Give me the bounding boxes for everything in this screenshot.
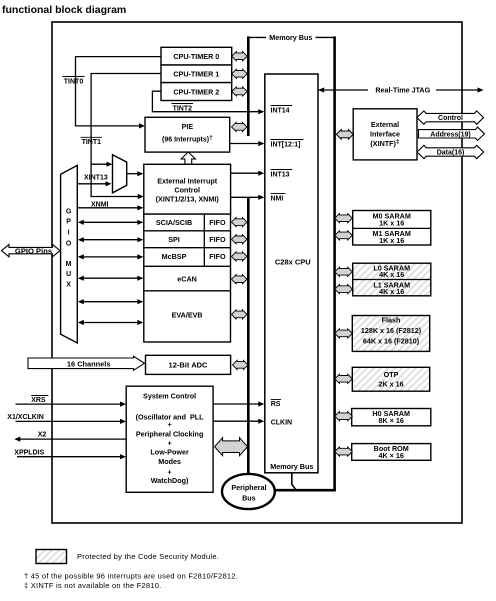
wire CLKIN system control to CPU (213, 419, 264, 424)
bus arrow SCIA (232, 218, 248, 227)
svg-text:INT13: INT13 (271, 171, 290, 178)
svg-text:8K × 16: 8K × 16 (379, 416, 404, 425)
legend hatched swatch (36, 550, 219, 564)
wire XNMI row into ext int control (77, 205, 143, 210)
bus arrow cpu-timer 0 (232, 52, 248, 61)
GPIO mux polygon (61, 165, 78, 343)
wire RS system control to CPU (213, 401, 264, 406)
svg-text:Memory Bus: Memory Bus (269, 33, 312, 42)
svg-text:SCIA/SCIB: SCIA/SCIB (156, 218, 192, 227)
svg-text:U: U (66, 271, 71, 278)
label XINT13 (84, 175, 108, 182)
arrow 16 Channels (28, 356, 145, 370)
wire NMI ext-int-control to CPU (231, 195, 265, 200)
bus arrow System Control (215, 438, 248, 456)
svg-text:XINT13: XINT13 (84, 175, 108, 182)
svg-text:CPU-TIMER 0: CPU-TIMER 0 (173, 52, 219, 61)
svg-text:+: + (167, 420, 171, 429)
svg-text:XPPLDIS: XPPLDIS (14, 449, 44, 456)
outer border frame (52, 22, 462, 523)
block CPU-TIMER 1 (161, 65, 232, 83)
svg-text:M: M (66, 261, 72, 268)
label X1/XCLKIN (7, 414, 44, 421)
bus arrow M1 (335, 231, 353, 240)
svg-text:Interface: Interface (370, 129, 400, 138)
svg-text:System Control: System Control (143, 391, 196, 400)
wire gpio-ecan bidirectional (78, 276, 144, 281)
bus arrow OTP (335, 374, 353, 383)
peripheral bus ellipse (222, 474, 275, 509)
svg-text:INT14: INT14 (271, 108, 290, 115)
svg-text:External: External (371, 120, 399, 129)
svg-text:Bus: Bus (242, 494, 256, 503)
bus arrow EVA/EVB (232, 310, 248, 319)
block M0/M1 SARAM (353, 211, 431, 246)
svg-text:FIFO: FIFO (209, 235, 226, 244)
wire INT[12:1] from PIE to CPU (230, 141, 265, 146)
svg-text:PIE: PIE (182, 122, 194, 131)
bus arrow cpu-timer 1 (232, 69, 248, 78)
block System Control (126, 386, 213, 492)
bus arrow L0 (335, 267, 353, 276)
svg-text:P: P (66, 219, 71, 226)
bus arrow XINTF (336, 130, 353, 140)
svg-text:16 Channels: 16 Channels (67, 360, 111, 369)
label XPPLDIS (14, 449, 44, 456)
svg-text:CPU-TIMER 1: CPU-TIMER 1 (173, 70, 219, 79)
block CPU-TIMER 0 (161, 47, 232, 65)
bus arrow McBSP (232, 252, 248, 261)
bus arrow cpu-timer 2 (232, 87, 248, 96)
svg-text:TINT2: TINT2 (173, 106, 193, 113)
wire X1/XCLKIN (16, 419, 127, 424)
svg-text:64K x 16 (F2810): 64K x 16 (F2810) (363, 336, 420, 345)
svg-text:Control: Control (438, 115, 463, 122)
svg-text:McBSP: McBSP (162, 252, 187, 261)
svg-text:EVA/EVB: EVA/EVB (172, 310, 203, 319)
svg-text:functional block diagram: functional block diagram (2, 4, 126, 16)
label TINT2 (172, 104, 194, 113)
svg-text:O: O (66, 241, 72, 248)
svg-text:Real-Time JTAG: Real-Time JTAG (375, 86, 430, 95)
wire INT13 ext-int-control to CPU (231, 171, 265, 176)
wire XPPLDIS (17, 454, 126, 459)
label XNMI (91, 201, 109, 208)
bus arrow H0 (335, 412, 353, 421)
block External Interface XINTF (353, 109, 417, 160)
peripheral bus bottom wire (273, 489, 336, 492)
arrow Address(19) (419, 127, 485, 140)
bus arrow Boot ROM (335, 447, 353, 456)
svg-text:2K x 16: 2K x 16 (378, 379, 403, 388)
wire TINT2 (152, 91, 264, 114)
svg-text:SPI: SPI (168, 235, 180, 244)
wire TINT1 (91, 74, 161, 200)
svg-text:CPU-TIMER 2: CPU-TIMER 2 (173, 87, 219, 96)
svg-text:Address(19): Address(19) (430, 131, 470, 138)
wire gpio-eva1 bidirectional (78, 299, 144, 304)
memory bus trunk (333, 36, 336, 491)
hollow arrow ext-int to PIE (181, 152, 195, 164)
bus arrow eCAN (232, 275, 248, 284)
bus arrow PIE (232, 122, 248, 131)
svg-text:128K x 16 (F2812): 128K x 16 (F2812) (361, 326, 422, 335)
svg-text:4K x 16: 4K x 16 (379, 287, 404, 296)
svg-text:4K x 16: 4K x 16 (379, 270, 404, 279)
svg-text:1K x 16: 1K x 16 (379, 218, 404, 227)
svg-text:WatchDog): WatchDog) (151, 476, 189, 485)
svg-text:CLKIN: CLKIN (271, 420, 292, 427)
wire mux output to ext int control (127, 171, 144, 176)
svg-text:NMI: NMI (271, 195, 284, 202)
wire XINT13 into mux (77, 181, 111, 186)
svg-text:TINT0: TINT0 (64, 79, 84, 86)
svg-text:Modes: Modes (158, 457, 181, 466)
svg-text:(XINT1/2/13, XNMI): (XINT1/2/13, XNMI) (156, 195, 220, 204)
svg-text:External Interrupt: External Interrupt (157, 177, 218, 186)
svg-text:‡ XINTF is not available on th: ‡ XINTF is not available on the F2810. (24, 581, 162, 590)
block CPU-TIMER 2 (161, 83, 232, 101)
block PIE (145, 117, 230, 152)
svg-text:† 45 of the possible 96 interr: † 45 of the possible 96 interrupts are u… (24, 571, 238, 580)
wire XRS (16, 402, 127, 407)
svg-text:C28x CPU: C28x CPU (275, 257, 311, 266)
bus arrow Flash (335, 329, 353, 338)
cpu to peripheral bus connector wire (292, 473, 296, 490)
svg-text:Peripheral: Peripheral (231, 483, 266, 492)
mux XINT13 (113, 155, 127, 193)
title (2, 4, 126, 16)
svg-text:X1/XCLKIN: X1/XCLKIN (7, 414, 44, 421)
svg-text:Memory Bus: Memory Bus (270, 462, 313, 471)
block 12-Bit ADC (146, 355, 231, 374)
block H0 SARAM (352, 409, 431, 426)
wire gpio-scia bidirectional (78, 220, 144, 225)
svg-text:X: X (66, 281, 71, 288)
wire X2 (14, 437, 126, 442)
wire TINT0 (76, 57, 162, 129)
memory bus top label (248, 33, 334, 42)
bus arrow M0 (335, 214, 353, 223)
svg-text:OTP: OTP (384, 370, 399, 379)
peripheral bus trunk upper segment (247, 36, 250, 136)
footnote double dagger (24, 581, 162, 590)
block L0/L1 SARAM (353, 263, 431, 296)
wire Real-Time JTAG (318, 86, 483, 95)
bus arrow SPI (232, 235, 248, 244)
svg-text:Control: Control (174, 186, 200, 195)
svg-text:Low-Power: Low-Power (150, 447, 189, 456)
svg-text:Data(16): Data(16) (437, 150, 465, 157)
footnote dagger (24, 571, 238, 580)
svg-text:X2: X2 (38, 431, 47, 438)
arrow GPIO Pins (2, 244, 61, 256)
arrow Control (417, 111, 484, 124)
svg-text:(XINTF)‡: (XINTF)‡ (370, 139, 400, 149)
svg-text:eCAN: eCAN (177, 274, 197, 283)
svg-text:Flash: Flash (382, 316, 401, 325)
svg-text:XRS: XRS (31, 397, 46, 404)
block Boot ROM (352, 444, 431, 461)
svg-text:INT[12:1]: INT[12:1] (271, 141, 301, 148)
svg-text:4K × 16: 4K × 16 (379, 451, 404, 460)
svg-text:FIFO: FIFO (209, 252, 226, 261)
label TINT0 (63, 77, 85, 86)
block External Interrupt Control (144, 164, 231, 214)
svg-text:G: G (66, 208, 72, 215)
wire gpio-mcbsp bidirectional (78, 254, 144, 259)
svg-text:TINT1: TINT1 (82, 139, 102, 146)
bus arrow L1 (335, 285, 353, 294)
svg-text:I: I (68, 230, 70, 237)
block Flash (352, 316, 429, 352)
svg-text:RS: RS (271, 401, 281, 408)
block OTP (352, 367, 429, 391)
svg-text:Peripheral Clocking: Peripheral Clocking (136, 430, 204, 439)
svg-text:+: + (167, 439, 171, 448)
svg-text:Protected by the Code Security: Protected by the Code Security Module. (77, 552, 219, 561)
label XRS (31, 396, 48, 404)
label TINT1 (81, 137, 102, 146)
label X2 (38, 431, 47, 438)
svg-text:12-Bit ADC: 12-Bit ADC (169, 361, 208, 370)
arrow Data(16) (417, 145, 484, 158)
wire gpio-spi bidirectional (78, 237, 144, 242)
svg-text:GPIO Pins: GPIO Pins (15, 247, 52, 256)
svg-text:(96 Interrupts)†: (96 Interrupts)† (162, 134, 213, 143)
block C28x CPU (265, 74, 318, 473)
svg-text:1K x 16: 1K x 16 (379, 236, 404, 245)
bus arrow ADC (233, 360, 249, 369)
peripheral bus trunk lower segment (247, 198, 250, 476)
svg-text:FIFO: FIFO (209, 218, 226, 227)
wire gpio-eva2 bidirectional (78, 320, 144, 325)
block peripheral column SCIA/SPI/McBSP/eCAN/EVA (144, 214, 231, 342)
